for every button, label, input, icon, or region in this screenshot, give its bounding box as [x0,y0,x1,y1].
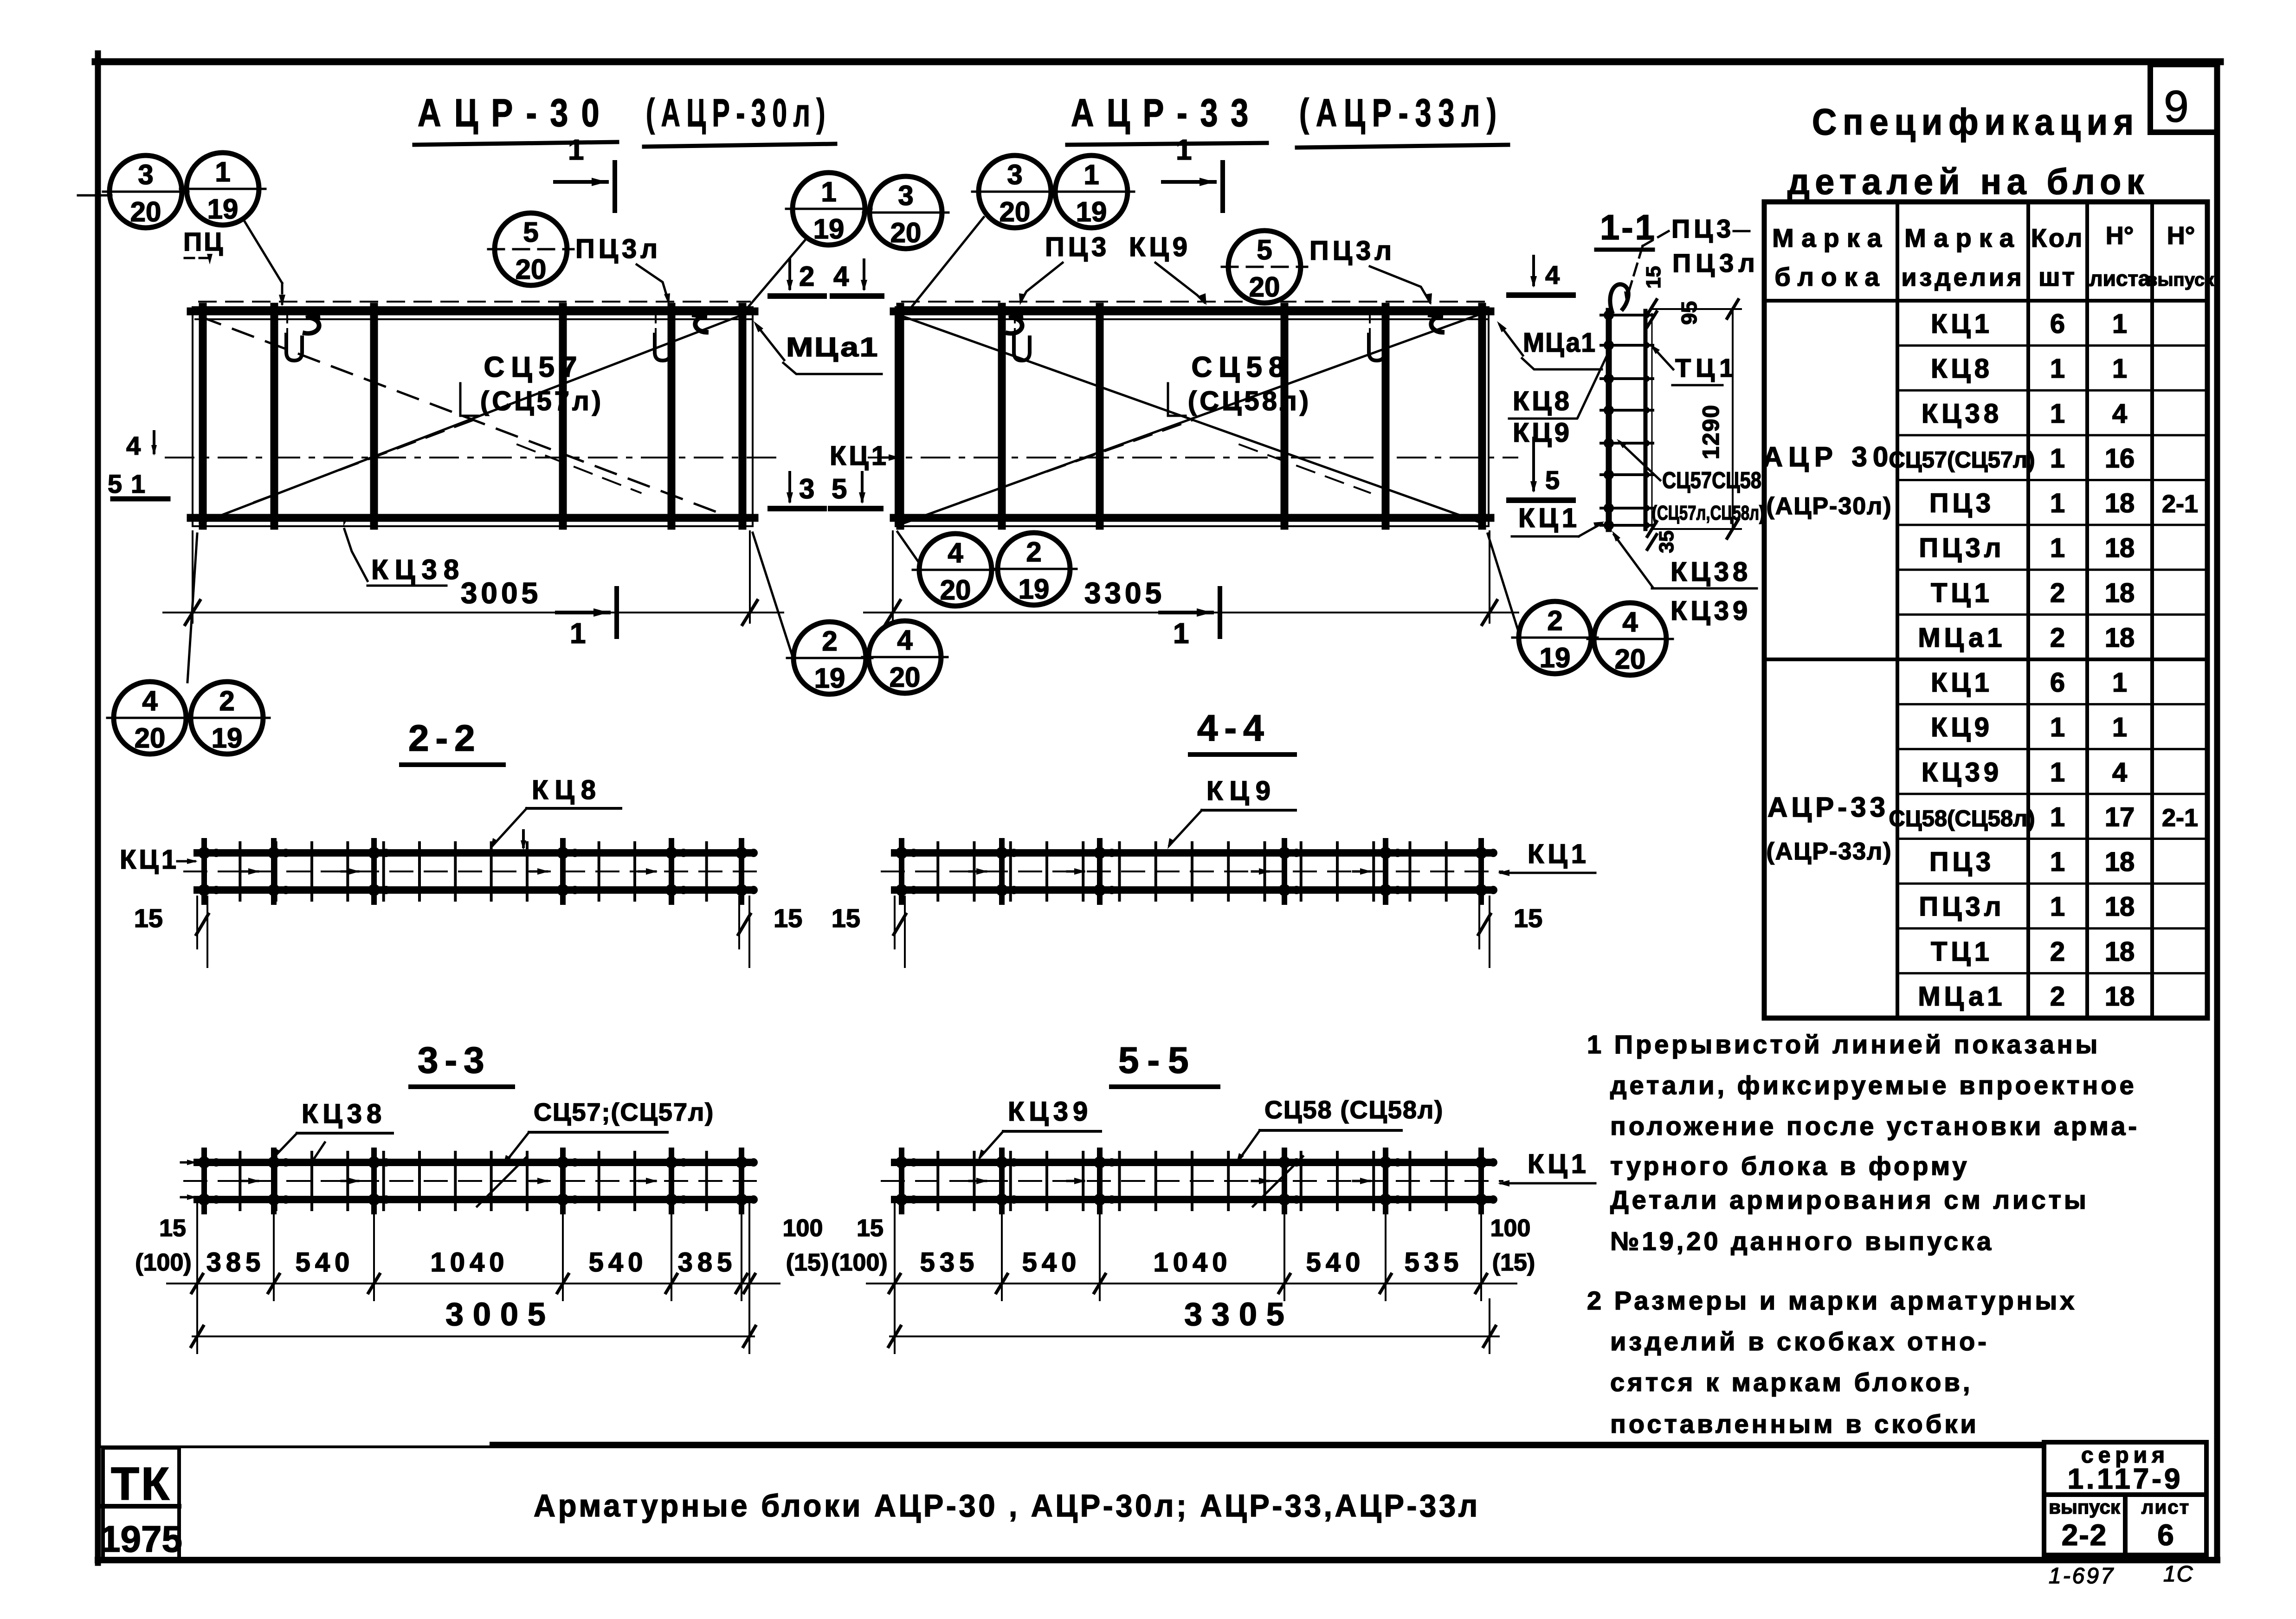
svg-text:1040: 1040 [430,1247,509,1277]
svg-text:1: 1 [2112,668,2127,698]
svg-text:МЦа1: МЦа1 [786,332,879,362]
svg-text:15: 15 [1514,903,1542,933]
leader to АЦР-30 corner [748,239,806,307]
svg-text:4: 4 [833,261,849,292]
svg-text:2-2: 2-2 [408,717,482,759]
svg-text:КЦ1: КЦ1 [830,441,889,471]
svg-text:540: 540 [296,1247,355,1277]
dims chain (3-3) [167,1203,780,1300]
dim 15 left (2-2) [134,897,208,967]
svg-text:КЦ9: КЦ9 [1129,232,1191,262]
svg-text:1290: 1290 [1698,404,1724,459]
beam ties [902,843,1483,900]
svg-text:5-5: 5-5 [1118,1039,1197,1081]
cross bar 6 [1478,307,1486,526]
page number box [2150,65,2217,132]
svg-text:2 Размеры и марки арматурных: 2 Размеры и марки арматурных [1587,1286,2077,1315]
svg-text:КЦ39: КЦ39 [1008,1097,1092,1127]
svg-text:изделия: изделия [1901,264,2024,291]
svg-text:6: 6 [2157,1518,2174,1552]
svg-text:3-3: 3-3 [418,1039,491,1081]
svg-text:1 Прерывистой линией показаны: 1 Прерывистой линией показаны [1587,1030,2100,1059]
svg-text:выпуск: выпуск [2146,270,2214,290]
svg-text:1975: 1975 [100,1518,182,1560]
cross bar 2 [998,307,1006,526]
svg-text:КЦ9: КЦ9 [1931,712,1993,742]
svg-text:СЦ57: СЦ57 [484,351,583,383]
svg-text:ПЦ3: ПЦ3 [1929,488,1994,518]
svg-text:ПЦ3: ПЦ3 [1671,214,1735,243]
svg-text:Арматурные блоки АЦР-30 , АЦР-: Арматурные блоки АЦР-30 , АЦР-30л; АЦР-3… [534,1488,1480,1523]
beam bottom chord [197,1196,749,1203]
svg-text:поставленным в скобки: поставленным в скобки [1610,1409,1979,1438]
svg-text:2: 2 [799,261,814,292]
sheet border top [95,58,2220,65]
sheet border left [95,53,101,1563]
svg-text:15: 15 [832,903,860,933]
segment dims (5-5) [920,1247,1464,1277]
sheet border bottom [98,1557,2217,1563]
svg-text:15: 15 [134,903,163,933]
left stub arrows (3-3) [181,1161,194,1164]
top hook loop [1610,284,1628,312]
dimension line 3005 [163,612,783,613]
beam bottom chord [197,886,749,894]
svg-text:17: 17 [2105,802,2135,832]
svg-text:СЦ58(СЦ58л): СЦ58(СЦ58л) [1889,806,2035,831]
svg-text:20: 20 [890,217,922,248]
svg-text:Марка: Марка [1772,223,1889,252]
sheet border right [2214,62,2220,1560]
svg-text:19: 19 [1019,574,1050,605]
svg-text:1: 1 [2050,533,2065,563]
cross bar 1 [896,307,904,526]
svg-text:КЦ8: КЦ8 [1931,354,1993,384]
svg-text:1: 1 [131,469,145,498]
leader ПЦ3 [1021,263,1063,302]
callouts 2/19, 4/20 below АЦР-33 right end [1512,601,1598,674]
svg-text:540: 540 [1306,1247,1365,1277]
svg-text:3: 3 [799,473,814,504]
top chord bar КЦ1 [191,308,755,316]
short dashed diagonals near axis [254,420,473,502]
dimension line 3305 [864,612,1518,613]
leader to bottom-left corner [187,534,197,682]
cross bar 6 [739,307,747,526]
cross bar 5 [668,307,676,526]
svg-text:турного блока в форму: турного блока в форму [1610,1151,1970,1180]
beam main bars with end dots [896,1150,1497,1212]
svg-text:20: 20 [135,722,166,754]
svg-text:4: 4 [142,685,158,716]
svg-text:18: 18 [2105,623,2135,653]
svg-text:16: 16 [2105,443,2135,473]
svg-text:385: 385 [206,1247,265,1277]
callout 3/20 above АЦР-33 [972,155,1058,228]
svg-text:1: 1 [570,618,586,650]
svg-text:ПЦ3л: ПЦ3л [1919,533,2005,563]
leader КЦ38 [344,529,368,581]
leader КЦ9 [1155,263,1205,303]
svg-text:15: 15 [774,903,802,933]
svg-text:1-697: 1-697 [2049,1564,2115,1588]
svg-text:20: 20 [130,196,161,227]
svg-text:4: 4 [2112,399,2127,429]
svg-text:блока: блока [1774,262,1886,291]
svg-text:35: 35 [1655,530,1678,553]
callout 1/19 (between drawings) [786,173,871,245]
svg-text:3005: 3005 [445,1296,555,1332]
svg-text:1: 1 [2050,443,2065,473]
dashed piece ПЦ3 above top chord [902,301,1486,303]
svg-text:ТК: ТК [111,1458,171,1510]
svg-text:1.117-9: 1.117-9 [2068,1463,2183,1495]
svg-text:(15): (15) [1492,1249,1535,1276]
dim line 1290 [1652,308,1741,310]
svg-text:(100): (100) [831,1249,887,1276]
svg-text:положение после установки арма: положение после установки арма- [1610,1111,2140,1141]
beam top chord [895,1159,1490,1166]
segment dims (3-3) [206,1247,737,1277]
svg-text:листа: листа [2089,266,2150,290]
svg-text:4: 4 [897,625,913,656]
svg-text:(15): (15) [786,1249,829,1276]
frame centre axis (dash-dot) [869,457,1517,458]
svg-text:4: 4 [1622,606,1638,638]
svg-text:1-1: 1-1 [1600,208,1657,247]
svg-text:20: 20 [1249,271,1280,303]
beam centre dash line [184,1180,762,1182]
svg-text:9: 9 [2164,82,2188,131]
svg-text:540: 540 [589,1247,648,1277]
svg-text:5: 5 [1257,234,1272,265]
svg-text:5: 5 [1545,465,1560,495]
beam bottom chord [895,1196,1490,1203]
callout 1/19 (top left) [180,153,265,225]
svg-text:КЦ1: КЦ1 [1931,668,1993,698]
svg-text:Детали армирования см листы: Детали армирования см листы [1610,1185,2089,1214]
hook loop right [694,315,707,332]
beam 3-3 [184,1150,762,1212]
column rungs [1601,310,1653,530]
top chord inner thin line [898,318,1487,320]
leader from callout 1/19 to frame [243,219,282,283]
svg-text:СЦ58 (СЦ58л): СЦ58 (СЦ58л) [1264,1096,1444,1124]
dimension 3005 witness lines [192,531,193,623]
svg-text:АЦР 30: АЦР 30 [1763,441,1894,472]
svg-text:КЦ1: КЦ1 [1518,503,1580,533]
diagonal brace (solid) [200,314,744,523]
svg-text:ТЦ1: ТЦ1 [1931,936,1993,967]
column vertical bars [1606,311,1612,529]
svg-text:19: 19 [212,722,243,754]
callout 3/20 (top left) [103,155,188,228]
svg-text:(АЦР-33л): (АЦР-33л) [1299,91,1503,135]
beam bottom chord [895,886,1490,894]
svg-text:19: 19 [1540,642,1571,673]
svg-text:535: 535 [920,1247,979,1277]
svg-text:20: 20 [516,254,547,285]
svg-text:18: 18 [2105,981,2135,1012]
table row lines [1764,346,2207,974]
svg-text:18: 18 [2105,847,2135,877]
total dim 3005 (3-3) [193,1335,754,1337]
svg-text:4-4: 4-4 [1197,707,1271,748]
svg-text:деталей на блок: деталей на блок [1787,161,2149,202]
svg-text:18: 18 [2105,936,2135,967]
callout 3/20 (between drawings) [863,176,948,249]
svg-text:5: 5 [832,473,847,504]
svg-text:(СЦ57л,СЦ58л): (СЦ57л,СЦ58л) [1652,502,1764,524]
callout 5/20 above АЦР-33 [1222,231,1307,303]
cross bar 3 [1096,307,1104,526]
dashed piece ПЦ3 above top chord [199,301,750,303]
beam 4-4 [882,841,1503,902]
cross bar 4 [559,307,567,526]
title block top line [102,1445,2044,1448]
leader to АЦР-33 corner [908,217,984,312]
svg-text:ПЦ3л: ПЦ3л [575,234,661,264]
table body rows [1889,309,2198,1012]
hanger hook U left [286,311,302,361]
svg-text:1: 1 [2112,309,2127,339]
dim 15 right (2-2) [738,897,802,967]
diagonal brace (dashed) [200,316,744,522]
svg-text:ПЦ3л: ПЦ3л [1309,236,1395,266]
svg-text:5: 5 [523,217,538,248]
svg-text:2: 2 [1026,536,1041,568]
svg-text:2: 2 [219,685,234,716]
svg-text:2-1: 2-1 [2162,804,2198,832]
svg-text:Марка: Марка [1904,223,2021,252]
top chord bar КЦ1 [894,308,1490,316]
svg-text:18: 18 [2105,488,2135,518]
beam ties [902,1152,1483,1210]
svg-text:2: 2 [822,626,837,657]
svg-text:1С: 1С [2163,1562,2193,1587]
section marks 3,5 between drawings [788,472,791,501]
svg-text:(АЦР-33л): (АЦР-33л) [1766,838,1892,865]
frame centre axis (dash-dot) [166,457,781,458]
svg-text:Спецификация: Спецификация [1812,101,2140,142]
svg-text:18: 18 [2105,533,2135,563]
svg-text:1: 1 [2050,757,2065,787]
svg-text:1: 1 [1084,159,1099,190]
svg-text:15: 15 [857,1215,884,1242]
svg-text:АЦР-33: АЦР-33 [1767,792,1889,823]
svg-text:лист: лист [2141,1496,2190,1518]
svg-text:1040: 1040 [1153,1247,1232,1277]
svg-text:КЦ8: КЦ8 [1513,386,1572,416]
svg-text:3: 3 [138,159,153,190]
svg-text:1: 1 [2050,399,2065,429]
svg-text:ПЦ3л: ПЦ3л [1672,248,1760,277]
hook loop left [305,316,319,334]
svg-text:шт: шт [2038,262,2077,291]
svg-text:ТЦ1: ТЦ1 [1931,578,1993,608]
diagonal brace (solid 2) [903,316,1480,522]
svg-text:19: 19 [207,194,239,225]
svg-text:АЦР-33: АЦР-33 [1071,91,1261,135]
beam top chord [197,849,749,857]
svg-text:19: 19 [814,663,845,694]
block outline (thin) [193,307,753,526]
section mark 1 (top, АЦР-33) [1163,134,1223,211]
svg-text:3305: 3305 [1084,576,1165,610]
svg-text:5: 5 [108,469,122,498]
svg-text:18: 18 [2105,892,2135,922]
svg-text:КЦ1: КЦ1 [1528,839,1590,869]
svg-text:4: 4 [948,537,963,568]
issue box [2044,1495,2125,1555]
TK stamp box [103,1448,179,1559]
svg-text:АЦР-30: АЦР-30 [418,91,613,135]
beam top chord [895,849,1490,857]
beam top chord [197,1159,749,1166]
beam 5-5 [882,1150,1503,1212]
svg-text:(АЦР-30л): (АЦР-30л) [1766,493,1892,520]
svg-text:1: 1 [2050,354,2065,384]
svg-text:3: 3 [898,180,913,211]
svg-text:детали, фиксируемые впроектное: детали, фиксируемые впроектное [1610,1071,2137,1100]
beam ties [204,843,746,900]
svg-text:3305: 3305 [1184,1296,1294,1332]
leader ПЦ3л [1370,266,1430,303]
svg-text:95: 95 [1677,301,1701,325]
dimension 3305 witness lines [892,531,894,623]
diagonal bar СЦ58 inside beam [1253,1156,1303,1206]
diagonal bar СЦ57 inside beam [477,1156,527,1206]
series box [2044,1442,2206,1495]
svg-text:1: 1 [2050,892,2065,922]
leader ПЦ3л to top chord [637,264,668,301]
section mark 1 (top, АЦР-30) [555,134,615,211]
svg-text:100: 100 [1490,1215,1531,1242]
short dashed diagonals near axis [961,420,1192,502]
section mark 1 (bottom, АЦР-30) [557,588,617,650]
svg-text:6: 6 [2050,309,2065,339]
svg-text:19: 19 [813,213,845,245]
beam main bars with end dots [198,841,758,902]
svg-text:6: 6 [2050,668,2065,698]
section mark 1 (bottom, АЦР-33) [1160,588,1220,650]
bottom chord bar КЦ1 [191,514,755,522]
svg-text:(АЦР-30л): (АЦР-30л) [646,91,832,135]
svg-text:1: 1 [2050,802,2065,832]
beam main bars with end dots [198,1150,758,1212]
svg-text:СЦ57;(СЦ57л): СЦ57;(СЦ57л) [534,1098,714,1126]
svg-text:15: 15 [1642,266,1665,289]
svg-text:385: 385 [678,1247,737,1277]
hook loop left [1008,316,1022,334]
svg-text:1: 1 [1176,134,1192,166]
beam tie arrows [241,868,658,875]
svg-text:КЦ1: КЦ1 [1528,1149,1590,1179]
svg-text:4: 4 [1545,260,1560,290]
svg-text:3005: 3005 [461,576,542,610]
svg-text:1: 1 [2050,712,2065,742]
callouts 4/20, 2/19 below АЦР-33 left end [913,534,998,606]
svg-text:КЦ38: КЦ38 [1670,557,1751,587]
svg-text:1: 1 [568,134,584,166]
top chord inner thin line [195,318,751,320]
svg-text:19: 19 [1076,196,1107,227]
dim 15 right (4-4) [1478,897,1542,967]
svg-text:1: 1 [215,156,230,187]
svg-text:540: 540 [1022,1247,1081,1277]
hook loop right [1430,315,1443,332]
svg-text:КЦ9: КЦ9 [1513,418,1572,448]
svg-text:1: 1 [2112,712,2127,742]
svg-text:2: 2 [1547,605,1562,636]
svg-text:КЦ8: КЦ8 [532,775,602,805]
svg-text:2: 2 [2050,981,2065,1012]
section marks 4 and 5 left of 1-1 [1532,256,1535,285]
hanger hook U right [1369,311,1385,361]
hanger hook U right [655,311,671,361]
svg-text:Н°: Н° [2167,222,2195,250]
svg-text:изделий в скобках отно-: изделий в скобках отно- [1610,1327,1989,1356]
beam tie arrows [969,1178,1372,1184]
svg-text:Н°: Н° [2106,222,2134,250]
svg-text:КЦ39: КЦ39 [1922,757,2002,787]
cross bar 2 [271,307,278,526]
svg-text:15: 15 [159,1215,186,1242]
total dim 3305 (5-5) [890,1335,1499,1337]
svg-text:1: 1 [2050,488,2065,518]
svg-text:3: 3 [1007,159,1022,190]
svg-text:20: 20 [890,662,921,693]
cross bar 4 [1281,307,1289,526]
svg-text:№19,20 данного выпуска: №19,20 данного выпуска [1610,1226,1994,1256]
callout 5/20 above АЦР-30 [488,213,574,285]
svg-text:20: 20 [1615,644,1646,675]
svg-text:ПЦ3л: ПЦ3л [1919,892,2005,922]
cross bar 5 [1382,307,1390,526]
svg-text:1: 1 [2050,847,2065,877]
svg-text:КЦ38: КЦ38 [1922,399,2002,429]
callouts 2/19, 4/20 below centre [787,622,872,694]
callout 1/19 above АЦР-33 [1049,155,1134,228]
block outline (thin) [896,307,1489,526]
svg-text:(100): (100) [135,1249,191,1276]
beam centre dash line [882,871,1503,872]
svg-text:1: 1 [821,176,836,207]
svg-text:КЦ39: КЦ39 [1670,596,1751,626]
svg-text:2: 2 [2050,623,2065,653]
sheet box [2125,1495,2206,1555]
svg-text:ТЦ1: ТЦ1 [1675,353,1738,382]
dim 15 left (4-4) [832,897,906,967]
svg-text:МЦа1: МЦа1 [1918,981,2006,1012]
svg-text:18: 18 [2105,578,2135,608]
dims chain (5-5) [867,1203,1516,1300]
svg-text:2: 2 [2050,936,2065,967]
svg-text:1: 1 [1173,618,1189,650]
bottom chord bar КЦ1 [894,514,1490,522]
beam centre dash line [882,1180,1503,1182]
svg-text:2-1: 2-1 [2162,490,2198,518]
beam main bars with end dots [896,841,1497,902]
svg-text:535: 535 [1405,1247,1464,1277]
svg-text:КЦ1: КЦ1 [120,845,179,875]
cross bar 1 [199,307,207,526]
svg-text:СЦ57(СЦ57л): СЦ57(СЦ57л) [1889,447,2035,472]
svg-text:ПЦ3: ПЦ3 [1045,232,1110,262]
svg-text:Кол: Кол [2031,223,2084,252]
svg-text:МЦа1: МЦа1 [1523,328,1596,358]
svg-text:(СЦ58л): (СЦ58л) [1188,386,1311,416]
